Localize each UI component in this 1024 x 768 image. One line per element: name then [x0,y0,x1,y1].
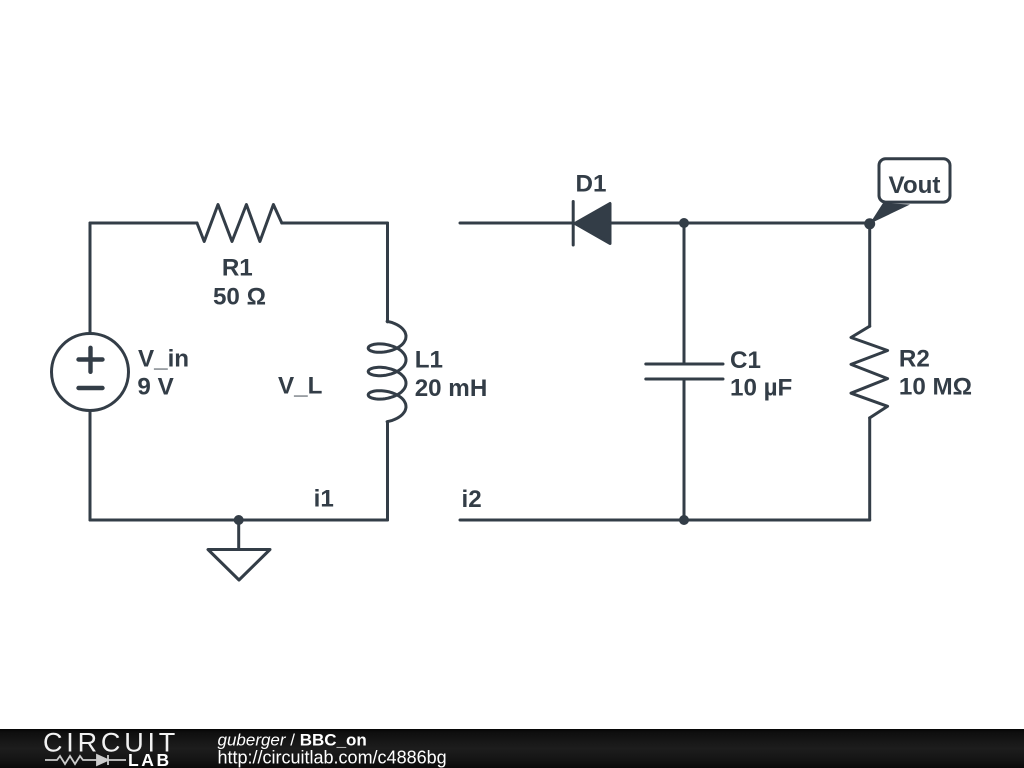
wire left-top segment [90,222,197,225]
svg-text:50 Ω: 50 Ω [213,284,266,311]
node label V_L [278,373,323,400]
svg-text:20 mH: 20 mH [415,375,488,402]
wire diode to node [610,222,870,225]
wire R2 branch lower [868,418,871,520]
label R1 designator [222,254,253,281]
wire bottom-left rail [90,519,388,522]
wire top-right of R1 [282,222,388,225]
wire left vertical lower [89,411,92,521]
CircuitLab logo wordmark CIRCUIT [43,728,179,758]
svg-text:D1: D1 [576,171,607,198]
svg-text:9 V: 9 V [137,374,173,401]
svg-text:R2: R2 [899,345,930,372]
svg-text:L1: L1 [415,346,443,373]
svg-text:V_L: V_L [278,373,323,400]
wire left vertical upper [89,223,92,334]
svg-text:R1: R1 [222,254,253,281]
svg-text:10 MΩ: 10 MΩ [899,373,972,400]
label V_in value 9 V [137,374,173,401]
svg-text:LAB: LAB [128,750,172,768]
junction dot ground node [234,515,244,525]
wire inductor branch upper [386,223,389,322]
resistor R2 [851,326,888,418]
label L1 value 20 mH [415,375,488,402]
wire R2 branch upper [868,223,871,326]
voltage source V_in [52,334,129,411]
capacitor C1 [646,364,723,379]
svg-text:i1: i1 [314,486,334,513]
wire capacitor branch upper [683,223,686,364]
node label i2 [462,486,482,513]
svg-text:C1: C1 [730,347,761,374]
label D1 designator [576,171,607,198]
inductor L1 [368,321,406,421]
label R1 value 50 Ω [213,284,266,311]
footer text guberger / BBC_on [218,731,447,768]
svg-text:i2: i2 [462,486,482,513]
svg-text:http://circuitlab.com/c4886bg: http://circuitlab.com/c4886bg [218,747,447,767]
wire right-top left segment [460,222,573,225]
net flag Vout [870,159,950,224]
diode D1 [573,202,610,246]
junction dot cap bottom [679,515,689,525]
footer bar [0,729,1024,768]
label R2 designator [899,345,930,372]
svg-text:Vout: Vout [889,172,941,199]
svg-text:V_in: V_in [138,346,189,373]
label C1 designator [730,347,761,374]
wire capacitor branch lower [683,379,686,520]
junction dot cap top [679,218,689,228]
wire inductor branch lower [386,422,389,520]
label C1 value 10 µF [730,374,792,401]
svg-text:10 µF: 10 µF [730,374,792,401]
ground symbol [208,520,270,580]
node label i1 [314,486,334,513]
CircuitLab logo wordmark LAB [128,750,172,768]
label R2 value 10 MΩ [899,373,972,400]
label V_in designator [138,346,189,373]
label L1 designator [415,346,443,373]
resistor R1 [197,205,282,242]
CircuitLab logo resistor-diode squiggle [45,755,126,765]
junction dot Vout node [864,218,875,229]
wire bottom-right rail [460,519,870,522]
